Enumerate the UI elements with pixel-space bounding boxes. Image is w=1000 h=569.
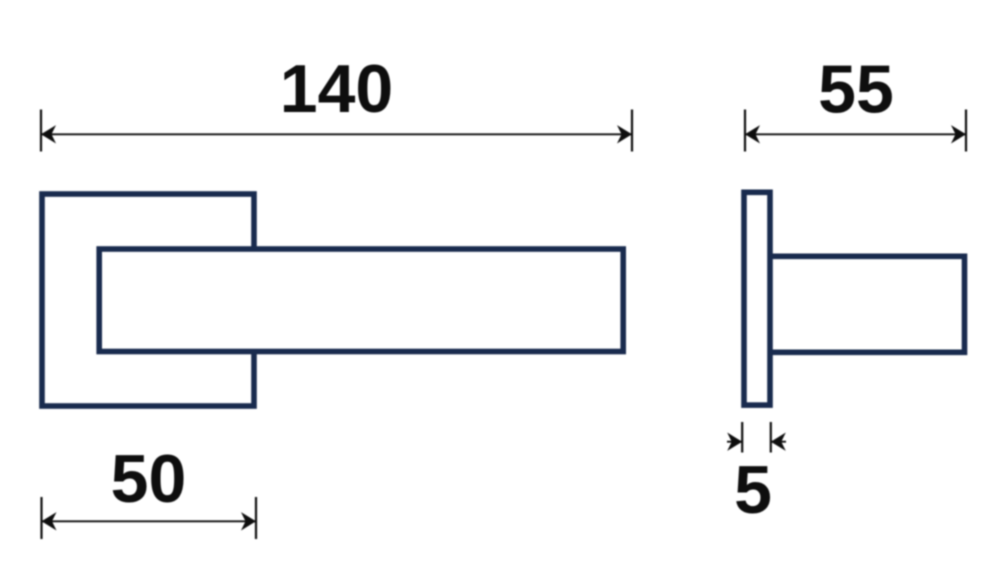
dimension 140: extension ticks <box>40 110 42 152</box>
dimension 55: line <box>745 133 966 135</box>
dimension 5: extension ticks <box>741 422 743 453</box>
dimension 140: line <box>41 133 632 135</box>
side view: thin rose plate (5mm) <box>744 192 770 405</box>
svg-text:5: 5 <box>734 452 772 528</box>
dimension 50: extension ticks <box>40 497 42 539</box>
dimension 140: right arrow <box>617 125 632 143</box>
dimension 50: left arrow <box>42 512 57 530</box>
svg-text:50: 50 <box>111 441 187 517</box>
front view: square rose plate <box>42 194 254 406</box>
dimension 50: right arrow <box>241 512 256 530</box>
dimension 55: left arrow <box>745 125 760 143</box>
dimension 140: left arrow <box>41 125 56 143</box>
svg-text:140: 140 <box>280 51 393 127</box>
dimension 50: line <box>42 520 257 522</box>
front view: lever handle bar <box>99 249 623 352</box>
dimension 5: right leader + inward arrow <box>771 441 786 443</box>
svg-text:55: 55 <box>818 52 894 128</box>
side view: handle bar (neck + grip) <box>770 256 965 352</box>
dimension 55: right arrow <box>951 125 966 143</box>
dimension 5: left leader + inward arrow <box>727 441 742 443</box>
dimension 55: extension ticks <box>744 110 746 152</box>
